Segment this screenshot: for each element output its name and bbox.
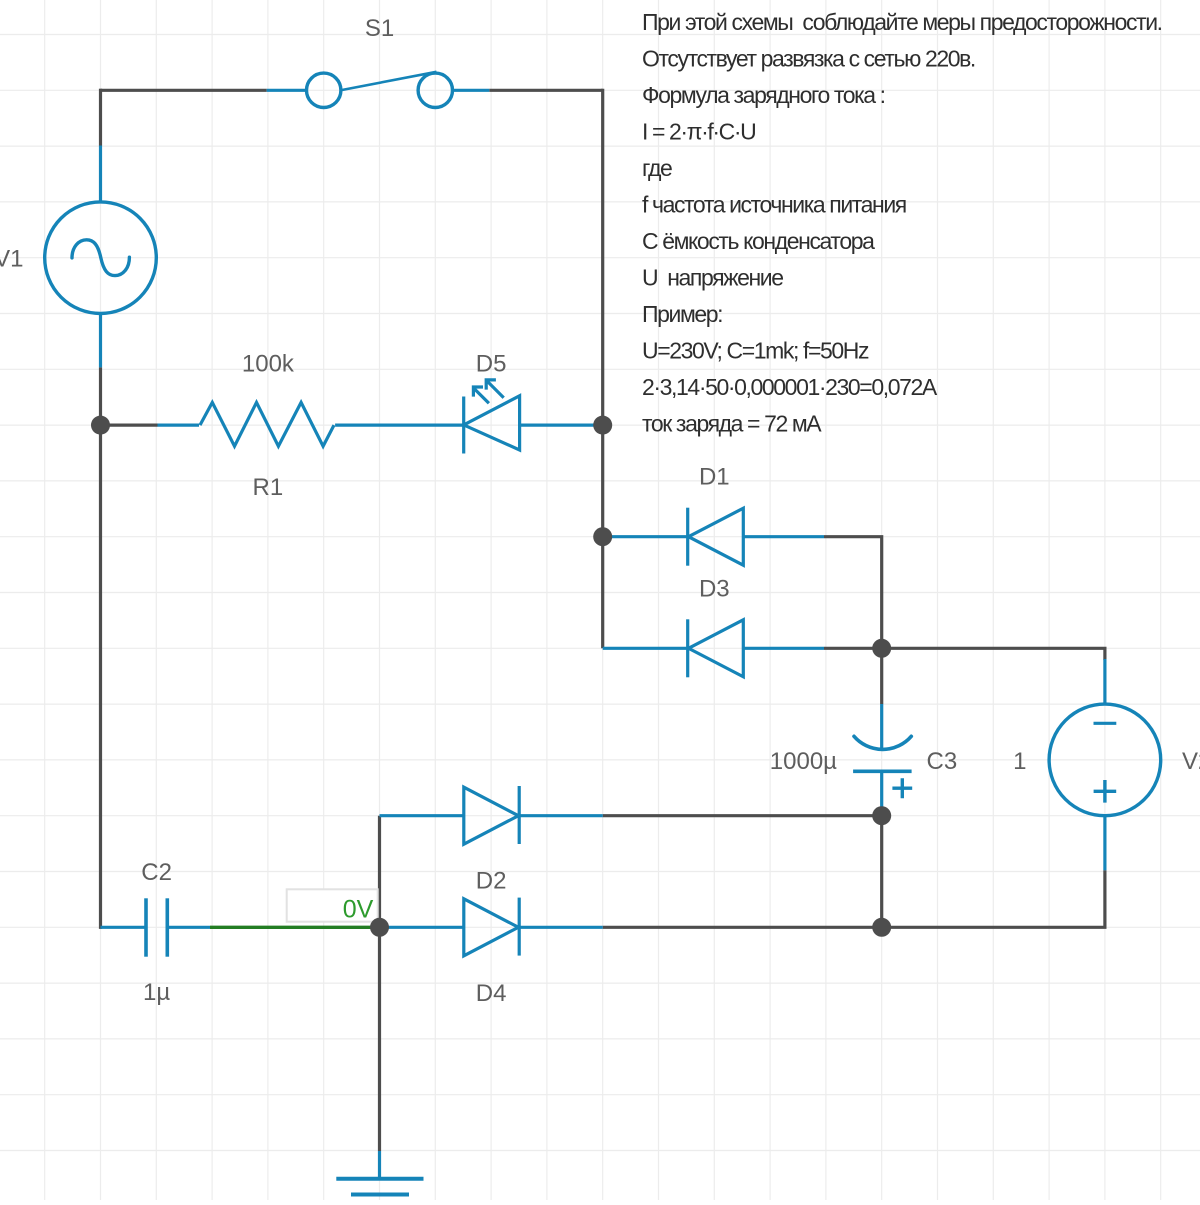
wire V2 top lead — [1103, 659, 1106, 704]
wire D2 right to C3 node — [603, 814, 882, 817]
svg-text:D4: D4 — [476, 980, 507, 1007]
wire D2 right lead — [519, 814, 603, 817]
source V2 — [1049, 704, 1161, 816]
svg-text:1000µ: 1000µ — [770, 748, 837, 775]
svg-text:Пример:: Пример: — [642, 301, 722, 327]
node dots — [91, 416, 891, 937]
switch S1 — [307, 72, 453, 108]
svg-text:ток заряда = 72 мА: ток заряда = 72 мА — [642, 411, 822, 437]
svg-text:R1: R1 — [253, 474, 284, 501]
svg-text:где: где — [642, 155, 672, 181]
wire right vertical from switch to D1 — [601, 89, 604, 537]
wire C3 top dark — [880, 648, 883, 704]
svg-text:0V: 0V — [343, 896, 374, 924]
wire V2 bottom lead — [1103, 816, 1106, 871]
diode D1 — [688, 508, 744, 566]
wire ground lead — [378, 1151, 381, 1179]
svg-text:2·3,14·50·0,000001·230=0,072A: 2·3,14·50·0,000001·230=0,072A — [642, 374, 938, 400]
node V1-R1 — [91, 416, 110, 435]
node D4 right — [872, 918, 891, 937]
node C3 bottom — [872, 806, 891, 825]
0V probe box — [287, 889, 378, 923]
wire V1 top lead — [99, 146, 102, 203]
svg-text:С ёмкость конденсатора: С ёмкость конденсатора — [642, 228, 875, 254]
wire left vertical upper — [99, 89, 102, 146]
diode D4 — [464, 898, 519, 956]
svg-text:C3: C3 — [927, 748, 958, 775]
svg-text:f частота источника питания: f частота источника питания — [642, 192, 906, 218]
wire ground vertical — [378, 927, 381, 1151]
svg-text:D1: D1 — [699, 464, 730, 491]
svg-text:I = 2·π·f·C·U: I = 2·π·f·C·U — [642, 119, 755, 145]
svg-text:Отсутствует развязка с сетью 2: Отсутствует развязка с сетью 220в. — [642, 46, 975, 72]
diode D3 — [688, 619, 744, 677]
svg-text:D2: D2 — [476, 867, 507, 894]
svg-text:D5: D5 — [476, 351, 507, 378]
wire S1 left lead — [267, 89, 307, 92]
wire D1 right lead — [743, 535, 824, 538]
wire V1 bottom to node — [99, 367, 102, 425]
capacitor C3 — [853, 736, 912, 798]
svg-text:1µ: 1µ — [143, 979, 170, 1006]
wire D4 right lead — [519, 926, 603, 929]
wire D2 left vertical — [378, 816, 381, 928]
diode D2 — [464, 786, 519, 844]
wire D3 left lead — [603, 647, 688, 650]
node D1 left — [593, 527, 612, 546]
svg-text:При этой схемы соблюдайте мер: При этой схемы соблюдайте меры предостор… — [642, 9, 1162, 35]
svg-text:Формула зарядного тока :: Формула зарядного тока : — [642, 82, 885, 108]
wire left vertical long — [99, 425, 102, 929]
svg-text:D3: D3 — [699, 575, 730, 602]
svg-text:100k: 100k — [242, 351, 295, 378]
svg-text:V1: V1 — [0, 246, 24, 273]
node 0V — [370, 918, 389, 937]
node D5 right — [593, 416, 612, 435]
wire node to R1 stub — [101, 424, 158, 427]
svg-text:C2: C2 — [141, 859, 172, 886]
wire C2 left lead — [101, 926, 147, 929]
wire top-left horizontal — [101, 89, 267, 92]
wire D1 left lead — [603, 535, 688, 538]
wire D3 right to node — [824, 647, 882, 650]
wire D3 left vertical — [601, 537, 604, 649]
wire D3 node to V2 corner — [882, 648, 1105, 660]
wire R1 left lead — [158, 424, 200, 427]
wire S1 right lead — [452, 89, 489, 92]
wire 0V green segment — [210, 926, 380, 929]
svg-text:S1: S1 — [365, 15, 394, 42]
wire D3 right lead — [743, 647, 824, 650]
wire C2 right lead — [167, 926, 210, 929]
wire D2 left lead — [380, 814, 464, 817]
ground — [336, 1179, 423, 1195]
wire top-right horizontal — [489, 89, 602, 92]
wire C3 top lead — [880, 704, 883, 750]
LED D5 — [464, 380, 520, 454]
source V1 — [45, 202, 157, 314]
wire D1 right to corner — [824, 537, 882, 649]
svg-text:V2: V2 — [1182, 748, 1200, 775]
node D3 right — [872, 639, 891, 658]
capacitor C2 — [146, 898, 167, 956]
svg-text:U напряжение: U напряжение — [642, 265, 783, 291]
svg-text:U=230V; C=1mk; f=50Hz: U=230V; C=1mk; f=50Hz — [642, 338, 869, 364]
wire C3 bottom between nodes — [880, 810, 883, 927]
wire V1 bottom lead — [99, 313, 102, 367]
wire R1 to D5 — [335, 424, 464, 427]
wire C3 bottom lead — [880, 773, 883, 812]
wire V2 bottom to corner — [882, 870, 1105, 927]
wire D4 right to C3 node — [603, 926, 882, 929]
wire D5 right lead — [520, 424, 603, 427]
resistor R1 — [200, 402, 334, 446]
svg-text:1: 1 — [1013, 748, 1026, 775]
wire D4 left lead — [380, 926, 464, 929]
